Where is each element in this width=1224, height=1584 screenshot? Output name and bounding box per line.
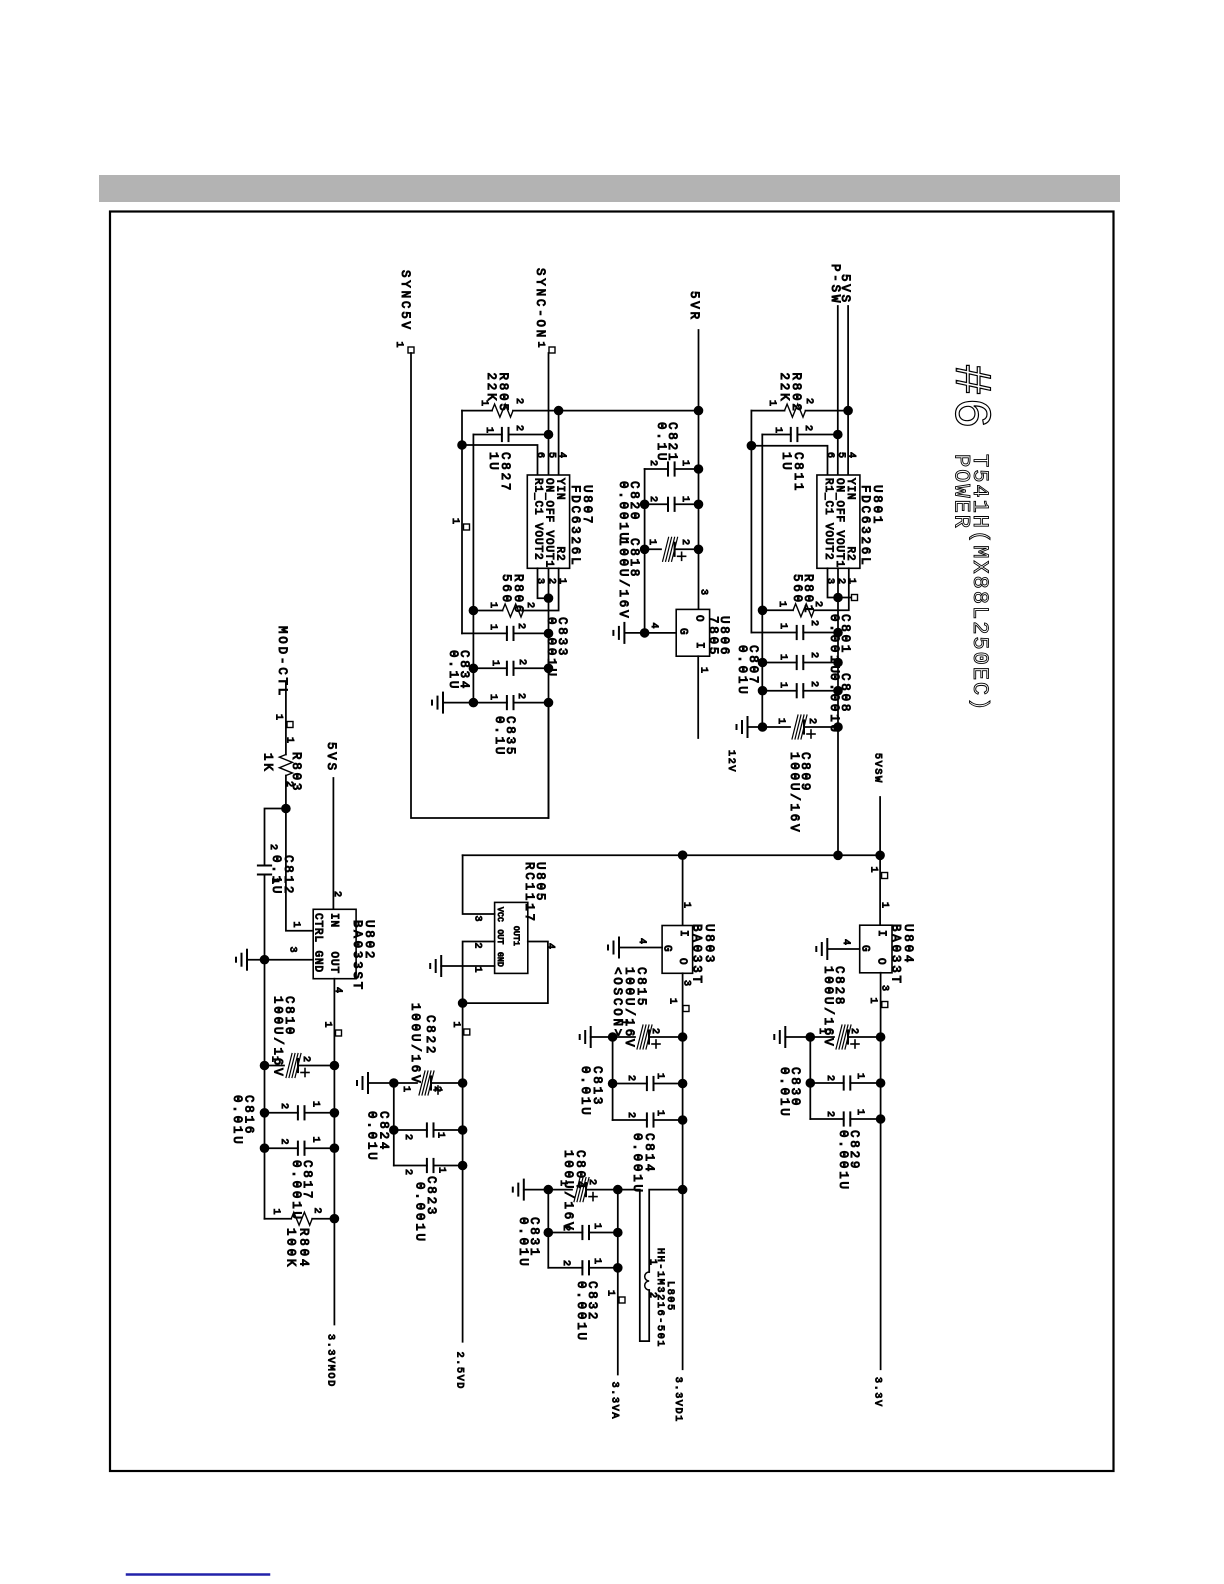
svg-text:5: 5 — [835, 452, 846, 460]
svg-text:3: 3 — [534, 578, 545, 586]
svg-text:0.001U: 0.001U — [574, 1281, 588, 1343]
svg-text:SYNC-ON: SYNC-ON — [533, 268, 547, 340]
svg-text:2: 2 — [402, 1134, 413, 1142]
svg-text:3: 3 — [681, 980, 692, 988]
svg-text:O: O — [875, 958, 887, 966]
svg-text:1: 1 — [487, 694, 498, 702]
svg-text:1: 1 — [322, 1022, 333, 1030]
svg-text:6: 6 — [534, 452, 545, 460]
svg-text:3: 3 — [698, 589, 709, 597]
svg-text:0.001U: 0.001U — [836, 1130, 850, 1192]
svg-text:1: 1 — [556, 578, 567, 586]
svg-text:VCC: VCC — [495, 907, 504, 922]
svg-text:1: 1 — [654, 1073, 665, 1081]
svg-text:22K: 22K — [484, 373, 498, 404]
svg-text:1: 1 — [667, 998, 678, 1006]
svg-text:O: O — [676, 958, 688, 966]
svg-text:3.3VMOD: 3.3VMOD — [325, 1334, 336, 1388]
svg-text:1: 1 — [879, 902, 890, 910]
svg-text:4: 4 — [648, 623, 659, 631]
svg-text:5VR: 5VR — [687, 291, 701, 322]
svg-text:POWER: POWER — [949, 454, 974, 530]
svg-text:1: 1 — [775, 718, 786, 726]
svg-text:1: 1 — [270, 1209, 281, 1217]
svg-text:2: 2 — [647, 496, 658, 504]
svg-text:MOD-CTL: MOD-CTL — [275, 626, 289, 698]
svg-text:BA033T: BA033T — [690, 924, 704, 986]
svg-text:1: 1 — [591, 1223, 602, 1231]
svg-text:1: 1 — [766, 400, 777, 408]
svg-text:5: 5 — [546, 452, 557, 460]
svg-text:4: 4 — [840, 939, 851, 947]
svg-text:1: 1 — [681, 902, 692, 910]
svg-text:1: 1 — [854, 1109, 865, 1117]
svg-text:2: 2 — [802, 425, 813, 433]
svg-text:1: 1 — [535, 342, 546, 350]
svg-text:0.1U: 0.1U — [492, 716, 506, 757]
svg-text:100U/16V: 100U/16V — [408, 1003, 422, 1085]
svg-text:1: 1 — [698, 667, 709, 675]
svg-text:R804: R804 — [297, 1228, 311, 1269]
svg-text:R1_C1 VOUT2: R1_C1 VOUT2 — [822, 478, 834, 561]
svg-text:2: 2 — [848, 1028, 859, 1036]
svg-text:1: 1 — [450, 1022, 461, 1030]
svg-text:2: 2 — [278, 1139, 289, 1147]
svg-text:R803: R803 — [289, 752, 303, 793]
svg-text:1: 1 — [591, 1258, 602, 1266]
svg-text:2: 2 — [278, 1103, 289, 1111]
svg-text:1: 1 — [646, 539, 657, 547]
svg-text:1: 1 — [449, 518, 460, 526]
svg-text:1: 1 — [487, 624, 498, 632]
svg-text:<OSCON>: <OSCON> — [610, 967, 624, 1039]
svg-text:1: 1 — [679, 460, 690, 468]
svg-text:1: 1 — [679, 496, 690, 504]
svg-text:1: 1 — [777, 623, 788, 631]
svg-text:1: 1 — [777, 654, 788, 662]
svg-text:0.01U: 0.01U — [365, 1111, 379, 1163]
svg-text:100U/16V: 100U/16V — [616, 538, 630, 620]
svg-text:0.01U: 0.01U — [516, 1217, 530, 1269]
svg-text:100K: 100K — [284, 1228, 298, 1269]
svg-text:2: 2 — [513, 425, 524, 433]
svg-text:1: 1 — [478, 400, 489, 408]
svg-text:1: 1 — [777, 682, 788, 690]
svg-text:0.01U: 0.01U — [777, 1067, 791, 1119]
svg-text:5VS: 5VS — [838, 274, 852, 305]
svg-text:2: 2 — [806, 718, 817, 726]
svg-text:G: G — [661, 945, 673, 953]
svg-text:1: 1 — [483, 427, 494, 435]
svg-text:FDC6326L: FDC6326L — [858, 485, 872, 567]
svg-text:2: 2 — [472, 943, 483, 951]
svg-text:1U: 1U — [779, 452, 793, 473]
svg-text:5VS: 5VS — [324, 742, 338, 773]
svg-text:I: I — [693, 642, 705, 650]
svg-text:O: O — [693, 615, 705, 623]
svg-text:1: 1 — [400, 1086, 411, 1094]
svg-text:1: 1 — [489, 660, 500, 668]
svg-text:IN: IN — [328, 913, 340, 928]
svg-text:1: 1 — [776, 601, 787, 609]
svg-text:4: 4 — [332, 987, 343, 995]
svg-text:#6: #6 — [940, 364, 999, 431]
svg-text:1: 1 — [290, 922, 301, 930]
svg-text:2: 2 — [300, 1056, 311, 1064]
svg-text:0.1U: 0.1U — [654, 422, 668, 463]
svg-text:2: 2 — [803, 398, 814, 406]
svg-text:4: 4 — [556, 452, 567, 460]
svg-text:0.001U: 0.001U — [289, 1160, 303, 1222]
svg-text:1: 1 — [393, 342, 404, 350]
svg-text:RC1117: RC1117 — [522, 862, 536, 924]
svg-text:2: 2 — [516, 659, 527, 667]
svg-text:0.01U: 0.01U — [230, 1095, 244, 1147]
svg-text:1: 1 — [310, 1101, 321, 1109]
svg-text:0.01U: 0.01U — [578, 1066, 592, 1118]
svg-text:1: 1 — [654, 1110, 665, 1118]
svg-text:C822: C822 — [423, 1015, 437, 1056]
svg-text:2: 2 — [679, 539, 690, 547]
svg-text:3: 3 — [287, 947, 298, 955]
svg-text:1: 1 — [284, 737, 295, 745]
svg-text:5VSW: 5VSW — [872, 753, 883, 784]
svg-text:3: 3 — [879, 985, 890, 993]
svg-text:560: 560 — [499, 574, 513, 605]
svg-text:FDC6326L: FDC6326L — [568, 485, 582, 567]
svg-text:4: 4 — [846, 452, 857, 460]
svg-text:1: 1 — [605, 1290, 616, 1298]
svg-text:1: 1 — [273, 714, 284, 722]
svg-text:4: 4 — [636, 938, 647, 946]
svg-text:1: 1 — [868, 867, 879, 875]
svg-text:2: 2 — [331, 891, 342, 899]
svg-text:100U/16V: 100U/16V — [271, 996, 285, 1078]
svg-text:3.3V: 3.3V — [872, 1377, 883, 1408]
svg-text:2: 2 — [808, 681, 819, 689]
svg-text:0.1U: 0.1U — [269, 855, 283, 896]
svg-text:3.3VD1: 3.3VD1 — [672, 1377, 683, 1423]
svg-text:2: 2 — [515, 693, 526, 701]
svg-text:2: 2 — [808, 620, 819, 628]
svg-text:2: 2 — [311, 1208, 322, 1216]
svg-text:2: 2 — [560, 1260, 571, 1268]
svg-text:22K: 22K — [777, 373, 791, 404]
svg-text:0.001U: 0.001U — [630, 1133, 644, 1195]
svg-text:3: 3 — [472, 916, 483, 924]
svg-text:3.3VA: 3.3VA — [609, 1382, 620, 1421]
svg-text:100U/16V: 100U/16V — [787, 752, 801, 834]
svg-text:1: 1 — [854, 1073, 865, 1081]
svg-text:CTRL GND: CTRL GND — [312, 913, 324, 973]
svg-text:1: 1 — [472, 967, 483, 975]
svg-text:2: 2 — [649, 1028, 660, 1036]
svg-text:OUT1: OUT1 — [511, 926, 520, 946]
svg-text:0.001U: 0.001U — [413, 1182, 427, 1244]
svg-text:6: 6 — [824, 452, 835, 460]
svg-text:1: 1 — [436, 1167, 447, 1175]
svg-text:100U/16V: 100U/16V — [561, 1150, 575, 1232]
svg-text:12V: 12V — [725, 750, 736, 773]
svg-text:1: 1 — [487, 602, 498, 610]
svg-text:2: 2 — [625, 1112, 636, 1120]
svg-text:0.01U: 0.01U — [735, 645, 749, 697]
svg-text:100U/16V: 100U/16V — [821, 966, 835, 1048]
svg-text:0.001U: 0.001U — [616, 481, 630, 543]
svg-text:2: 2 — [824, 1111, 835, 1119]
svg-text:1U: 1U — [486, 452, 500, 473]
svg-text:2: 2 — [515, 623, 526, 631]
svg-text:7805: 7805 — [706, 616, 720, 657]
svg-text:OUT: OUT — [328, 952, 340, 975]
svg-text:2: 2 — [560, 1225, 571, 1233]
svg-text:2: 2 — [267, 844, 278, 852]
svg-text:HH-1M3216-501: HH-1M3216-501 — [654, 1248, 665, 1348]
svg-text:1: 1 — [310, 1137, 321, 1145]
svg-text:2: 2 — [625, 1075, 636, 1083]
svg-text:R1_C1 VOUT2: R1_C1 VOUT2 — [532, 478, 544, 561]
svg-text:1K: 1K — [261, 753, 275, 774]
svg-text:1: 1 — [435, 1132, 446, 1140]
svg-text:G: G — [677, 628, 689, 636]
svg-text:2: 2 — [835, 578, 846, 586]
svg-text:2: 2 — [824, 1075, 835, 1083]
svg-text:SYNC5V: SYNC5V — [398, 270, 412, 332]
svg-text:GND: GND — [495, 952, 504, 967]
svg-text:2: 2 — [402, 1169, 413, 1177]
svg-text:BA033ST: BA033ST — [350, 920, 364, 992]
svg-text:OUT: OUT — [495, 930, 504, 945]
svg-text:0.1U: 0.1U — [446, 650, 460, 691]
svg-text:4: 4 — [545, 943, 556, 951]
svg-text:3: 3 — [824, 578, 835, 586]
svg-text:1: 1 — [867, 998, 878, 1006]
svg-text:I: I — [677, 930, 689, 938]
svg-text:2: 2 — [513, 398, 524, 406]
svg-text:1: 1 — [846, 578, 857, 586]
svg-text:I: I — [875, 930, 887, 938]
svg-text:2: 2 — [812, 601, 823, 609]
svg-text:2.5VD: 2.5VD — [454, 1352, 465, 1391]
svg-text:2: 2 — [524, 602, 535, 610]
svg-text:BA033T: BA033T — [889, 924, 903, 986]
svg-text:2: 2 — [808, 652, 819, 660]
svg-text:560: 560 — [790, 574, 804, 605]
svg-text:1: 1 — [772, 427, 783, 435]
svg-text:2: 2 — [431, 1086, 442, 1094]
svg-text:2: 2 — [546, 578, 557, 586]
